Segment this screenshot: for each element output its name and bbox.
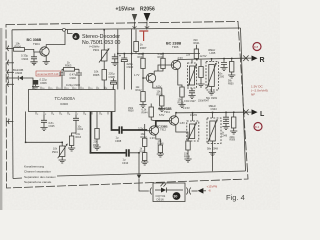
- svg-text:Fig. 4: Fig. 4: [226, 193, 245, 202]
- inner frame bottom left segment: [13, 177, 22, 180]
- svg-text:R947: R947: [204, 100, 210, 102]
- capacitor C903: [66, 71, 82, 89]
- T912 collector to T911 base: [156, 121, 170, 127]
- svg-text:C908: C908: [115, 139, 122, 143]
- LED D916: [155, 183, 183, 193]
- svg-text:C906: C906: [40, 81, 47, 85]
- R channel output wire: [178, 58, 252, 59]
- resistor R904: [14, 41, 40, 52]
- svg-text:1.7V: 1.7V: [134, 73, 140, 77]
- wire rail feeds down to IC: [118, 54, 132, 90]
- +15V rail wire: [118, 53, 200, 55]
- svg-text:C925: C925: [49, 125, 56, 128]
- svg-text:R2056: R2056: [140, 7, 155, 13]
- capacitor C902: [59, 71, 77, 89]
- dashed filter box F901: [188, 63, 197, 88]
- dashed filter box F902: [187, 121, 199, 141]
- channel separation note: [24, 164, 56, 184]
- outer dashed frame: [6, 22, 248, 189]
- svg-text:R903: R903: [65, 64, 72, 68]
- thick capacitor C908: [115, 126, 122, 142]
- svg-text:TCA4500A: TCA4500A: [55, 96, 76, 101]
- svg-text:13.5V: 13.5V: [183, 106, 190, 110]
- capacitor C930: [219, 59, 228, 79]
- resistor R950: [228, 58, 235, 85]
- svg-text:19kHz: 19kHz: [190, 114, 198, 117]
- svg-text:C910: C910: [127, 65, 134, 69]
- svg-text:3.3V: 3.3V: [138, 127, 144, 131]
- supply arrow into lamp: [192, 188, 207, 194]
- capacitor C925: [40, 115, 55, 131]
- red note NF levels: [251, 85, 268, 97]
- capacitor C905: [109, 71, 117, 89]
- transistor T905: [146, 71, 155, 83]
- filter label C943: [209, 104, 218, 111]
- transistor T912: [146, 126, 158, 136]
- svg-text:30: 30: [173, 195, 177, 199]
- svg-text:P901: P901: [52, 151, 58, 154]
- coil P901 label: [90, 45, 101, 52]
- decoder title dot 4: [72, 33, 79, 40]
- wire into lamp box: [139, 179, 149, 191]
- svg-text:Kanaltrennung: Kanaltrennung: [24, 164, 44, 168]
- svg-text:220p: 220p: [230, 137, 236, 139]
- thick trace A to T912 base: [122, 129, 146, 132]
- svg-text:±1% C927: ±1% C927: [184, 100, 196, 103]
- svg-text:C913: C913: [122, 161, 129, 165]
- resistor R905: [93, 70, 107, 90]
- pin 3 connector: [6, 59, 14, 66]
- svg-text:D906: D906: [16, 71, 23, 75]
- svg-text:0.22µ C903: 0.22µ C903: [66, 83, 80, 87]
- resistor R914: [153, 82, 166, 111]
- svg-text:1.3V: 1.3V: [150, 136, 156, 140]
- thick audio trace B: [91, 112, 126, 153]
- resistor R948 emitter T911: [176, 125, 192, 162]
- resistor R942: [141, 131, 148, 153]
- capacitor C927: [184, 91, 196, 103]
- pin 2 connector: [6, 44, 13, 51]
- resistor R907: [134, 29, 147, 53]
- inner frame bottom right segment: [57, 171, 246, 176]
- lamp box CQY31: [153, 183, 185, 202]
- capacitor C949: [222, 112, 230, 137]
- T904 collector wire to frame rail: [46, 31, 65, 47]
- L output plug junction: [243, 109, 248, 115]
- svg-text:IC900: IC900: [60, 102, 68, 106]
- pin 1 connector: [6, 68, 14, 75]
- svg-text:R921: R921: [194, 42, 201, 45]
- svg-text:R948: R948: [184, 156, 191, 159]
- red service wire from R2056: [139, 31, 148, 41]
- svg-text:No.750f1 053 00: No.750f1 053 00: [82, 40, 120, 46]
- resistor R921: [138, 53, 147, 78]
- wire rail feed from box top: [118, 29, 132, 54]
- diode D906: [6, 76, 33, 90]
- svg-text:C943: C943: [211, 107, 218, 111]
- IC top pin numbers: [34, 88, 108, 90]
- T906 emitter resistor R915: [178, 69, 186, 107]
- svg-text:R950: R950: [228, 83, 234, 85]
- svg-text:omenna ROT-110: omenna ROT-110: [37, 72, 59, 76]
- transistor T906: [166, 60, 180, 70]
- thick capacitor C913: [122, 149, 129, 165]
- resistor R946: [156, 135, 164, 157]
- pin (1) connector left: [7, 118, 14, 124]
- resistor R959: [230, 112, 238, 141]
- svg-text:0.47µ: 0.47µ: [70, 72, 77, 76]
- svg-text:R913: R913: [76, 137, 82, 139]
- svg-text:BC 238B: BC 238B: [159, 107, 173, 111]
- IC U900 TCA4500A box: [29, 90, 116, 112]
- red marker circle bottom: [254, 123, 262, 131]
- IC bottom pin ticks: [36, 112, 108, 115]
- trimmer inside F901: [188, 60, 197, 91]
- dashed filter box L935: [206, 62, 219, 91]
- resistor R912: [136, 78, 147, 108]
- potentiometer P902: [52, 142, 68, 163]
- svg-text:58n C948: 58n C948: [207, 148, 218, 151]
- resistor R903: [64, 60, 75, 71]
- connector mark node at +15V entry: [133, 27, 150, 28]
- svg-text:R959: R959: [230, 140, 236, 142]
- svg-text:C912: C912: [78, 129, 84, 131]
- svg-text:T911: T911: [164, 110, 170, 114]
- R944 junction to collector node: [151, 119, 156, 122]
- electrolytic capacitor C910: [119, 54, 134, 90]
- supply arrow +15VIFM: [132, 14, 137, 30]
- svg-text:R907: R907: [140, 46, 147, 50]
- IC top pin ticks: [33, 87, 113, 90]
- transistor T911: [169, 116, 178, 126]
- capacitor C904: [21, 52, 38, 65]
- svg-text:R944: R944: [142, 111, 149, 114]
- svg-text:-6: -6: [208, 189, 211, 193]
- scan edge shade: [0, 28, 2, 210]
- dot marker 30: [173, 192, 181, 200]
- svg-text:220µ: 220µ: [109, 71, 115, 75]
- R output arrow: [252, 56, 265, 64]
- red marker circle top: [253, 43, 261, 51]
- trimmer inside L941: [208, 112, 218, 171]
- inner solid frame left: [12, 30, 13, 179]
- red supply label +15VFM: [207, 185, 218, 193]
- trimmer inside L935: [207, 59, 217, 95]
- lamp box right connector: [186, 188, 190, 195]
- T906 collector to R output line: [177, 60, 179, 62]
- frame top jog under title: [68, 30, 73, 34]
- L output arrow: [252, 109, 266, 117]
- resistor R944: [142, 104, 154, 131]
- red service note box ROT-110: [36, 71, 61, 76]
- resistor R921a 820: [194, 39, 201, 59]
- wire pin1 column: [26, 112, 63, 143]
- pin 5 connector: [6, 80, 14, 87]
- transistor T904: [40, 47, 50, 57]
- svg-text:C904: C904: [22, 57, 29, 61]
- svg-text:1µ: 1µ: [123, 158, 126, 162]
- svg-text:D916: D916: [157, 198, 165, 202]
- resistor R919: [197, 60, 204, 87]
- svg-text:T904: T904: [33, 42, 40, 46]
- resistor R911: [140, 147, 149, 165]
- resistor label R938: [128, 108, 134, 113]
- filter label L935: [208, 48, 216, 55]
- inner solid frame top: [12, 28, 241, 30]
- trimmer coil P901: [99, 30, 110, 70]
- svg-text:150k: 150k: [128, 108, 134, 110]
- IC bottom pin numbers: [37, 114, 103, 116]
- connector circle on frame line: [63, 28, 66, 31]
- trimmer inside F902: [188, 113, 197, 140]
- svg-text:Stereo-Decoder: Stereo-Decoder: [82, 34, 120, 40]
- svg-text:Separation des canaux: Separation des canaux: [24, 175, 56, 179]
- supply arrow R2056: [144, 13, 151, 30]
- resistor label R947: [198, 100, 210, 102]
- svg-text:C930: C930: [219, 76, 225, 78]
- svg-text:Channel separation: Channel separation: [24, 170, 51, 174]
- lamp box left connector: [150, 188, 152, 195]
- svg-text:L935: L935: [210, 51, 216, 55]
- capacitor C911 decoupling: [111, 54, 118, 66]
- resistor R920: [154, 53, 166, 71]
- R output plug junction: [243, 55, 248, 61]
- svg-text:T906: T906: [172, 45, 179, 49]
- svg-text:8.8: 8.8: [254, 45, 259, 49]
- svg-text:1µ: 1µ: [116, 135, 119, 139]
- svg-text:5.5V: 5.5V: [159, 113, 165, 117]
- svg-text:T912: T912: [160, 128, 166, 132]
- svg-text:Separazione canale: Separazione canale: [24, 180, 52, 184]
- trace B to lamp box: [129, 153, 139, 175]
- svg-text:8.4: 8.4: [255, 125, 260, 129]
- svg-text:1.8V: 1.8V: [180, 121, 186, 125]
- svg-text:R: R: [260, 57, 265, 64]
- capacitor C906: [32, 77, 47, 89]
- svg-text:R938: R938: [128, 111, 134, 113]
- svg-text:12.5V: 12.5V: [200, 54, 207, 58]
- svg-text:P901: P901: [93, 48, 100, 52]
- junction triangle at frame: [137, 175, 141, 179]
- resistor R916: [93, 112, 101, 151]
- svg-text:NF: NF: [251, 93, 255, 97]
- svg-text:L: L: [260, 111, 265, 118]
- T904 emitter ground: [43, 56, 50, 65]
- pin bracket at diode wire: [8, 76, 9, 81]
- svg-text:C949: C949: [222, 135, 228, 137]
- svg-text:R905: R905: [93, 73, 100, 77]
- svg-text:C902: C902: [70, 76, 77, 80]
- wire R903 links: [62, 69, 79, 71]
- inner solid frame right: [241, 28, 246, 171]
- svg-text:R916: R916: [93, 144, 100, 147]
- capacitor C912 with resistor R913: [68, 115, 84, 152]
- L channel output wire: [176, 112, 252, 117]
- svg-text:+: +: [119, 54, 121, 58]
- svg-text:C905: C905: [109, 75, 116, 79]
- thick audio trace A: [112, 112, 119, 131]
- dashed filter box L941: [207, 118, 221, 144]
